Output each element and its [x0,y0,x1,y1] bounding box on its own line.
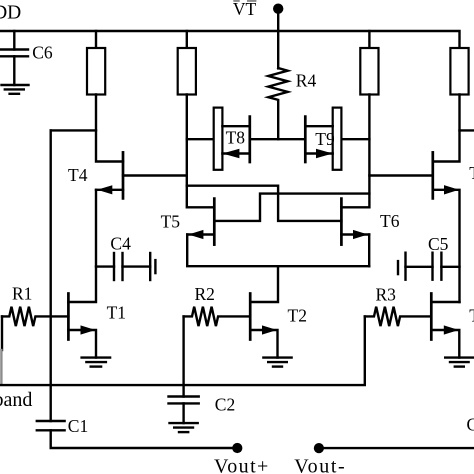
svg-text:VT: VT [233,0,257,19]
svg-text:T3: T3 [469,306,474,326]
svg-text:R4: R4 [296,70,317,90]
svg-text:T4: T4 [68,165,88,185]
svg-text:C4: C4 [110,233,131,253]
svg-text:T9: T9 [315,129,335,149]
svg-text:R2: R2 [195,284,215,304]
svg-text:T6: T6 [380,211,400,231]
svg-text:T8: T8 [226,128,246,148]
svg-text:C6: C6 [32,43,53,63]
svg-text:T2: T2 [288,306,307,326]
svg-text:T7: T7 [469,163,474,183]
svg-text:C3: C3 [467,415,474,435]
svg-text:C5: C5 [428,234,449,254]
svg-text:R1: R1 [12,284,32,304]
svg-text:T1: T1 [107,303,126,323]
svg-text:R3: R3 [376,285,397,305]
svg-text:Vout-: Vout- [294,455,346,474]
svg-text:C2: C2 [215,395,235,415]
svg-text:C1: C1 [68,416,88,436]
svg-text:T5: T5 [161,211,181,231]
svg-text:Wideband: Wideband [0,389,32,411]
svg-text:Vout+: Vout+ [214,455,270,474]
svg-text:VDD: VDD [0,2,21,23]
